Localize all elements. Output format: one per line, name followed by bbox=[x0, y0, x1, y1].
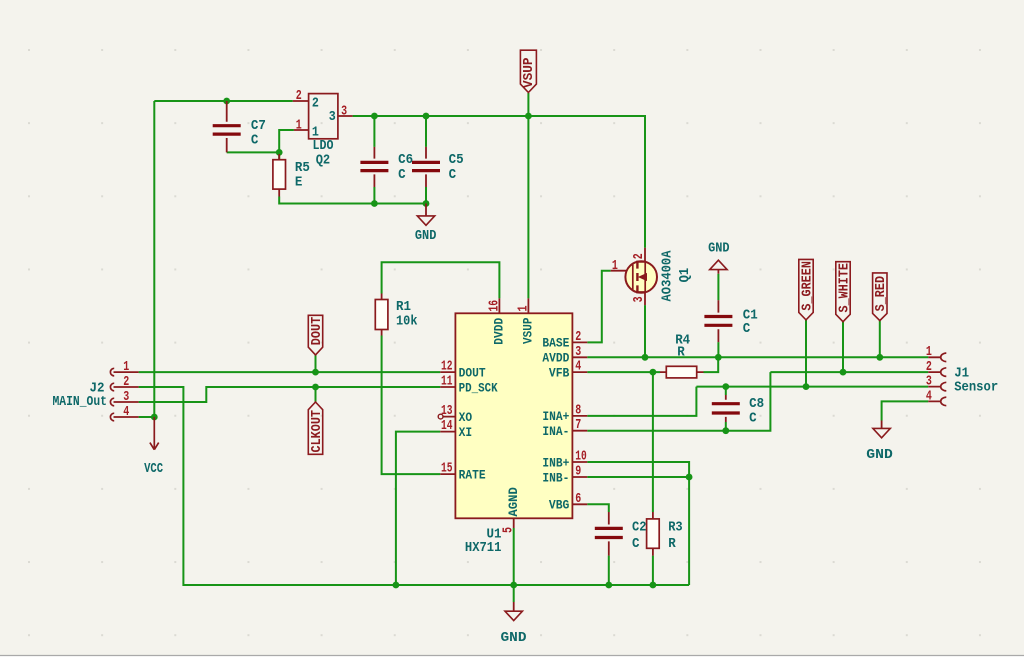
svg-text:GND: GND bbox=[415, 228, 437, 244]
node C6 bottom junction bbox=[371, 200, 378, 207]
net label S_GREEN bbox=[799, 259, 816, 320]
svg-text:1: 1 bbox=[123, 359, 129, 375]
svg-text:C: C bbox=[449, 167, 457, 183]
svg-text:C2: C2 bbox=[632, 519, 647, 535]
svg-text:GND: GND bbox=[866, 447, 893, 463]
resistor R5 bbox=[273, 154, 310, 197]
svg-text:16: 16 bbox=[486, 300, 502, 312]
svg-text:2: 2 bbox=[312, 95, 319, 111]
svg-text:2: 2 bbox=[631, 253, 647, 259]
wire C1 top to GND bbox=[717, 274, 719, 301]
wire INA+ up to J1 pin3 line bbox=[587, 387, 696, 416]
wire S_RED tail bbox=[879, 321, 881, 358]
svg-text:S_RED: S_RED bbox=[874, 276, 889, 312]
wire CLKOUT flag tail bbox=[315, 387, 317, 402]
wire J1 pin2 line bbox=[770, 371, 928, 373]
node C7 top junction bbox=[223, 98, 230, 105]
svg-text:3: 3 bbox=[631, 296, 647, 302]
net label DOUT bbox=[308, 315, 325, 355]
svg-text:4: 4 bbox=[123, 404, 129, 420]
node C5 bottom junction bbox=[423, 200, 430, 207]
svg-text:4: 4 bbox=[575, 359, 581, 375]
svg-text:4: 4 bbox=[926, 388, 932, 404]
svg-text:C: C bbox=[749, 411, 757, 427]
resistor R3 bbox=[647, 512, 683, 556]
wire J1 pin4 to GND bbox=[882, 401, 929, 420]
svg-text:2: 2 bbox=[123, 374, 129, 390]
svg-text:INA+: INA+ bbox=[542, 409, 569, 424]
node LDO adj junction bbox=[276, 149, 283, 156]
svg-text:DVDD: DVDD bbox=[492, 318, 507, 345]
wire S_WHITE tail bbox=[842, 322, 844, 372]
svg-text:S_WHITE: S_WHITE bbox=[837, 263, 852, 313]
wire C8 top bbox=[725, 387, 727, 395]
svg-text:GND: GND bbox=[708, 240, 730, 256]
svg-text:1: 1 bbox=[926, 344, 932, 360]
wire INB- to bottom rail riser bbox=[587, 477, 689, 585]
connector J2 bbox=[53, 359, 139, 421]
ground GND below C5 bbox=[415, 204, 437, 244]
svg-text:S_GREEN: S_GREEN bbox=[800, 261, 815, 311]
svg-text:VSUP: VSUP bbox=[521, 317, 536, 344]
capacitor C5 bbox=[412, 147, 464, 187]
wire C2 bottom bbox=[608, 556, 610, 585]
node J2 pin4 VCC junction bbox=[151, 414, 158, 421]
wire C6 bottom bbox=[373, 187, 375, 204]
wire R5 bottom to GND rail bbox=[279, 197, 426, 204]
node AGND bottom rail junction bbox=[510, 582, 517, 589]
node C8 top junction bbox=[722, 383, 729, 390]
wire VFB to R4 left bbox=[587, 371, 660, 373]
wire R1 top to DVDD pin bbox=[382, 262, 500, 298]
connector J1 bbox=[926, 344, 998, 406]
svg-text:DOUT: DOUT bbox=[310, 317, 325, 346]
svg-text:R: R bbox=[668, 536, 676, 552]
svg-text:2: 2 bbox=[296, 88, 302, 104]
svg-text:3: 3 bbox=[575, 344, 581, 360]
wire C1 bottom to AVDD rail bbox=[717, 342, 719, 357]
capacitor C1 bbox=[704, 300, 757, 342]
transistor Q1 AO3400A bbox=[611, 248, 693, 305]
svg-text:Q2: Q2 bbox=[316, 153, 331, 169]
wire R4 right up to AVDD rail bbox=[704, 357, 719, 372]
svg-text:11: 11 bbox=[441, 374, 453, 390]
wire J1 pin3 line bbox=[696, 386, 928, 388]
svg-text:AGND: AGND bbox=[506, 487, 521, 517]
wire DOUT line J2 pin1 to U1 pin12 bbox=[139, 371, 441, 373]
svg-text:RATE: RATE bbox=[459, 467, 486, 482]
svg-text:DOUT: DOUT bbox=[459, 365, 486, 380]
node C8 bottom junction bbox=[722, 427, 729, 434]
net label S_WHITE bbox=[836, 262, 853, 322]
wire J2 pin4 to VCC bbox=[139, 416, 155, 418]
svg-text:VBG: VBG bbox=[549, 498, 570, 513]
node S_RED junction bbox=[876, 354, 883, 361]
wire XI pin down to bottom rail bbox=[396, 432, 440, 585]
svg-text:VFB: VFB bbox=[549, 365, 570, 380]
wire LDO output rail to Q1 drain bbox=[353, 116, 645, 248]
svg-text:INB-: INB- bbox=[542, 470, 569, 485]
svg-text:12: 12 bbox=[441, 359, 453, 375]
wire LDO pin1 to R5 top bbox=[279, 130, 294, 159]
node C1 R4 AVDD junction bbox=[715, 354, 722, 361]
capacitor C2 bbox=[595, 512, 647, 556]
wire C8 bottom bbox=[725, 422, 727, 431]
svg-text:AO3400A: AO3400A bbox=[659, 250, 675, 302]
wire Q1 source to AVDD rail bbox=[644, 305, 646, 357]
pin 13 no-connect circle bbox=[438, 414, 443, 419]
net label S_RED bbox=[873, 273, 890, 321]
wire C5 top bbox=[425, 116, 427, 147]
wire C6 top bbox=[373, 116, 375, 147]
svg-text:INA-: INA- bbox=[542, 424, 569, 439]
wire BASE to Q1 gate bbox=[587, 271, 610, 343]
wire left vertical VCC rail bbox=[153, 101, 155, 417]
svg-text:9: 9 bbox=[575, 464, 581, 480]
svg-text:GND: GND bbox=[501, 630, 527, 646]
resistor R4 bbox=[653, 333, 704, 378]
wire INA- to J1 pin2 riser bbox=[587, 372, 770, 431]
svg-text:AVDD: AVDD bbox=[542, 351, 569, 366]
svg-text:C: C bbox=[251, 133, 259, 149]
svg-text:BASE: BASE bbox=[542, 336, 569, 351]
wire J2 pin2 down to bottom rail bbox=[139, 387, 690, 585]
node CLKOUT label junction bbox=[312, 384, 319, 391]
wire R1 bottom to RATE pin bbox=[382, 336, 441, 475]
svg-text:5: 5 bbox=[501, 527, 517, 533]
svg-text:VCC: VCC bbox=[144, 461, 163, 477]
wire J2 pin3 up to PD_SCK line bbox=[139, 387, 441, 402]
regulator U-LDO Q2 bbox=[293, 88, 353, 169]
node VSUP rail junction bbox=[525, 113, 532, 120]
node XI bottom rail junction bbox=[393, 582, 400, 589]
svg-text:3: 3 bbox=[926, 374, 932, 390]
net label CLKOUT bbox=[308, 402, 325, 454]
resistor R1 bbox=[375, 294, 417, 336]
node Q1 source AVDD junction bbox=[642, 354, 649, 361]
svg-text:1: 1 bbox=[296, 117, 302, 133]
svg-text:INB+: INB+ bbox=[542, 455, 569, 470]
node R3 bottom rail junction bbox=[650, 582, 657, 589]
node VFB R3 junction bbox=[650, 369, 657, 376]
svg-text:HX711: HX711 bbox=[465, 540, 502, 556]
svg-text:MAIN_Out: MAIN_Out bbox=[53, 394, 108, 410]
svg-text:C8: C8 bbox=[749, 396, 764, 412]
svg-text:13: 13 bbox=[441, 403, 453, 419]
svg-text:10k: 10k bbox=[396, 314, 418, 330]
wire input top rail from left vertical to LDO pin2 bbox=[154, 100, 292, 102]
svg-text:3: 3 bbox=[123, 389, 129, 405]
svg-text:1: 1 bbox=[515, 306, 531, 312]
wire AGND pin to bottom rail bbox=[513, 528, 515, 585]
ground GND below AGND bbox=[501, 602, 527, 646]
svg-text:XI: XI bbox=[459, 425, 473, 440]
wire VSUP flag to U1 VSUP pin bbox=[527, 93, 529, 298]
ground GND above C1 bbox=[708, 240, 730, 273]
wire R3 bottom bbox=[652, 556, 654, 585]
svg-text:15: 15 bbox=[441, 461, 453, 477]
svg-text:C: C bbox=[398, 167, 406, 183]
wire DOUT flag tail bbox=[315, 355, 317, 372]
svg-text:8: 8 bbox=[575, 402, 581, 418]
svg-text:10: 10 bbox=[575, 449, 587, 465]
node S_GREEN junction bbox=[803, 383, 810, 390]
svg-text:Sensor: Sensor bbox=[954, 380, 998, 396]
svg-text:2: 2 bbox=[575, 329, 581, 345]
node S_WHITE junction bbox=[840, 369, 847, 376]
ground GND below J1 pin4 bbox=[866, 421, 893, 464]
wire bottom rail GND stub bbox=[513, 585, 515, 602]
wire VFB node down to R3 top bbox=[652, 372, 654, 512]
capacitor C7 bbox=[213, 101, 266, 152]
svg-text:E: E bbox=[295, 175, 303, 191]
power symbol VCC bbox=[144, 417, 163, 477]
svg-text:3: 3 bbox=[341, 104, 347, 120]
svg-text:VSUP: VSUP bbox=[522, 58, 537, 89]
wire AVDD rail to J1 pin1 bbox=[587, 356, 928, 358]
wire S_GREEN tail bbox=[805, 320, 807, 387]
svg-text:R3: R3 bbox=[668, 519, 683, 535]
wire C7 bottom to LDO adj node bbox=[227, 151, 280, 153]
node C2 bottom rail junction bbox=[605, 582, 612, 589]
svg-text:C: C bbox=[632, 536, 640, 552]
svg-text:C5: C5 bbox=[449, 152, 464, 168]
capacitor C6 bbox=[360, 147, 413, 187]
svg-text:1: 1 bbox=[612, 258, 618, 274]
node DOUT label junction bbox=[312, 369, 319, 376]
svg-text:R: R bbox=[677, 344, 685, 360]
node C6 top junction bbox=[371, 113, 378, 120]
capacitor C8 bbox=[712, 395, 764, 427]
op-amp IC U1 HX711 bbox=[438, 298, 587, 556]
svg-text:XO: XO bbox=[459, 410, 473, 425]
svg-text:3: 3 bbox=[329, 109, 336, 125]
wire VBG to C2 top bbox=[587, 504, 609, 512]
wire INB+ to INB- join bbox=[587, 462, 689, 477]
svg-text:C7: C7 bbox=[251, 118, 266, 134]
svg-text:7: 7 bbox=[575, 417, 581, 433]
svg-text:PD_SCK: PD_SCK bbox=[459, 380, 498, 395]
svg-text:14: 14 bbox=[441, 418, 453, 434]
svg-text:Q1: Q1 bbox=[677, 268, 693, 283]
svg-text:6: 6 bbox=[575, 491, 581, 507]
node INB junction bbox=[686, 474, 693, 481]
svg-text:C: C bbox=[743, 321, 751, 337]
wire C5 bottom bbox=[425, 187, 427, 204]
svg-text:R5: R5 bbox=[295, 160, 310, 176]
power flag VSUP bbox=[520, 50, 537, 92]
svg-text:C6: C6 bbox=[398, 152, 413, 168]
node C5 top junction bbox=[423, 113, 430, 120]
svg-text:CLKOUT: CLKOUT bbox=[310, 410, 325, 453]
